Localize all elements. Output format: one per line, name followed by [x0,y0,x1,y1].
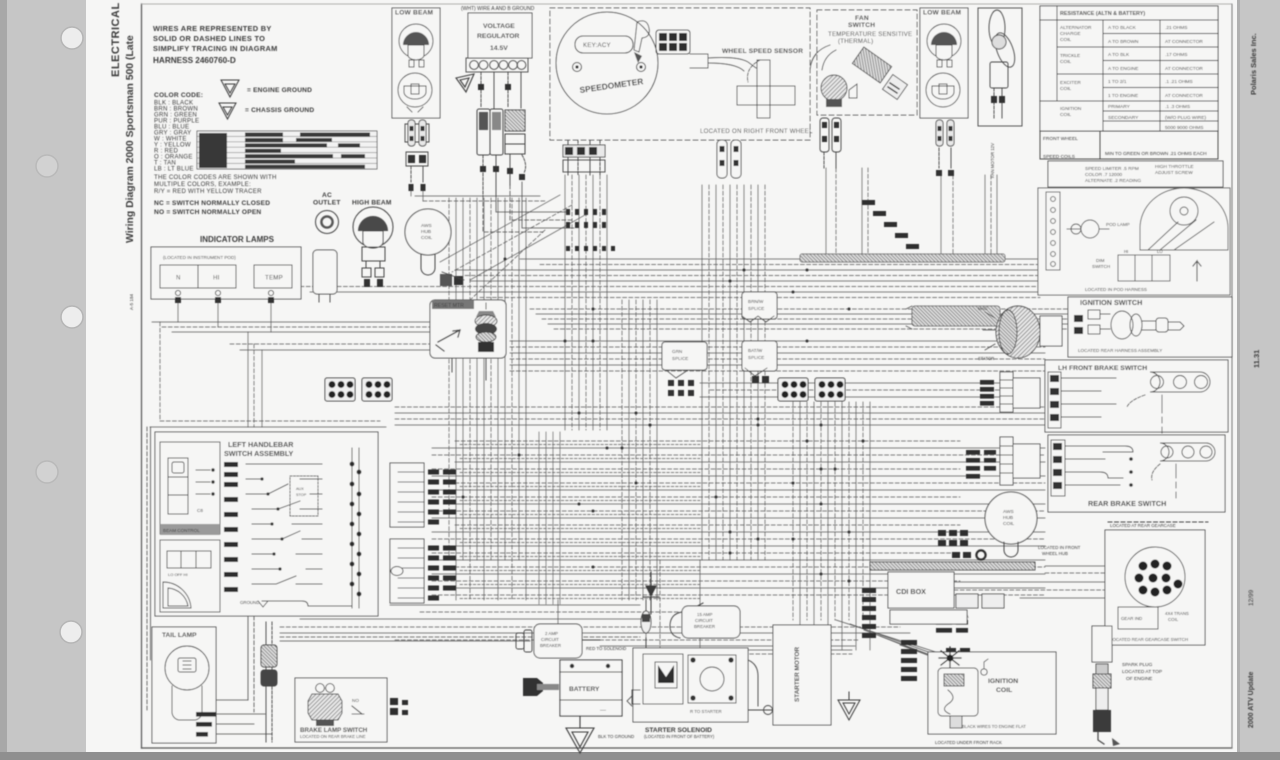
fan switch thermal sensor [748,45,908,107]
dim switch arrow [1193,261,1201,281]
svg-text:LOCATED ON RIGHT FRONT WHEEL: LOCATED ON RIGHT FRONT WHEEL [700,128,813,135]
color code legend [154,92,203,173]
svg-text:CDI BOX: CDI BOX [896,587,926,596]
svg-text:INDICATOR LAMPS: INDICATOR LAMPS [200,235,275,244]
fan switch capacitor body [821,75,847,101]
ignition coil box [928,652,1056,734]
2 amp circuit breaker [516,624,600,658]
connector below right low beam [936,120,954,176]
svg-text:COIL: COIL [1060,59,1072,65]
svg-text:1 TO 2/1: 1 TO 2/1 [1108,79,1127,85]
connector below left low beam [405,120,429,191]
coil internal [938,668,978,716]
svg-text:BEAM CONTROL: BEAM CONTROL [163,528,200,533]
inline connector ticks on speedo bundle [566,209,615,251]
trans switch enclosure [1105,522,1208,645]
table color cells [199,133,370,169]
svg-text:COIL: COIL [1060,37,1072,43]
rear brake switch box [1048,435,1225,512]
svg-text:COLOR .7 12000: COLOR .7 12000 [1085,172,1122,178]
tail lamp bulb [165,646,209,690]
lamp pins [175,290,180,295]
wire tag columns upper [428,470,456,525]
tail lamp wire labels [196,712,216,737]
svg-text:TRICKLE: TRICKLE [1060,53,1080,59]
wires below speedometer [563,140,605,175]
svg-text:C8: C8 [197,508,203,513]
svg-text:COIL: COIL [1060,112,1072,118]
svg-text:OF ENGINE: OF ENGINE [1126,676,1152,682]
horizontal harness wires [520,258,1040,260]
voltage regulator U1 [466,13,532,72]
wires converging to engine splice [836,620,948,656]
svg-text:MAG: MAG [978,306,988,311]
CDI round connector [976,550,985,559]
svg-text:AWS: AWS [421,223,432,229]
svg-text:STARTER MOTOR: STARTER MOTOR [794,646,801,702]
svg-text:AT CONNECTOR: AT CONNECTOR [1165,39,1203,45]
harness bundle above CDI [870,562,1035,619]
solenoid coil square [688,655,736,703]
spark plug body [1096,664,1108,674]
starter solenoid [627,648,758,722]
bus junction dots [350,462,362,597]
rear brake lever [1160,443,1215,461]
starter motor [748,625,831,725]
wire tags at lower accessory connector [966,450,996,479]
splice star [939,647,961,667]
svg-text:A TO ENGINE: A TO ENGINE [1108,66,1138,72]
svg-text:15 AMP: 15 AMP [697,612,712,617]
chassis ground triangle at regulator [456,74,474,92]
rear AWS hub coil [985,492,1081,557]
svg-text:SPLICE: SPLICE [748,306,764,311]
pod connector strip [1046,192,1060,270]
svg-text:LOCATED AT TOP: LOCATED AT TOP [1122,669,1162,675]
svg-text:LOCATED IN FRONT: LOCATED IN FRONT [1038,545,1081,550]
front brake connector pins [1048,372,1061,428]
svg-text:COIL: COIL [421,235,433,241]
svg-text:STATOR: STATOR [978,356,994,361]
svg-text:GEAR IND: GEAR IND [1121,616,1142,621]
svg-text:2000 ATV Update: 2000 ATV Update [1248,671,1255,728]
bottom page edge bar [0,752,1280,760]
splice GRN [662,342,707,396]
svg-text:VOLTAGE: VOLTAGE [483,23,515,30]
rear brake connector pins [1051,440,1065,496]
svg-text:11.31: 11.31 [1252,350,1261,368]
flasher relay tall rounded box [313,250,337,302]
svg-text:A-5 184: A-5 184 [129,293,134,310]
svg-text:A TO BROWN: A TO BROWN [1108,39,1139,45]
headlight LOW BEAM left box [392,8,440,118]
AC outlet [316,211,339,234]
requirements chart table [1040,6,1218,160]
hole punch 1 [61,27,83,49]
diode symbol in lower mesh [643,572,659,614]
cooling fan motor [978,8,1022,126]
pin pair below reset box [452,358,486,380]
speedometer gauge [556,12,658,114]
svg-text:RESISTANCE (ALTN & BATTERY): RESISTANCE (ALTN & BATTERY) [1060,11,1145,17]
svg-text:PRIMARY: PRIMARY [1108,104,1131,110]
connector block right of handlebar upper [390,463,456,527]
svg-text:BLACK WIRES TO ENGINE FLAT: BLACK WIRES TO ENGINE FLAT [962,724,1026,729]
vertical harness wires [177,303,179,322]
6-pin connector block D [815,378,845,401]
6-pin connector block A [325,378,355,401]
low beam lamp bulb 1 [399,24,433,58]
additional harness wires [460,432,852,654]
svg-text:NO = SWITCH NORMALLY OPEN: NO = SWITCH NORMALLY OPEN [154,209,261,216]
svg-text:COIL: COIL [1003,521,1015,527]
regulator pin strip [466,58,528,72]
spark plug label [1122,662,1162,682]
svg-text:.1 .3 OHMS: .1 .3 OHMS [1165,104,1190,110]
diagram border top [142,3,1233,5]
wire tags left mesh edge [700,382,1000,384]
chassis ground at starter [838,692,860,720]
svg-text:.17 OHMS: .17 OHMS [1165,52,1187,58]
magneto stator hatched [978,306,1062,361]
speedometer key symbol [634,21,649,52]
svg-text:LO OFF HI: LO OFF HI [168,572,188,577]
svg-text:BLK TO GROUND: BLK TO GROUND [598,734,634,739]
svg-text:SPARK PLUG: SPARK PLUG [1122,662,1153,668]
svg-text:TEMP: TEMP [265,275,283,282]
svg-text:4X4 TRANS: 4X4 TRANS [1165,611,1189,616]
svg-text:HI: HI [213,275,220,282]
svg-text:LOCATED AT REAR GEARCASE: LOCATED AT REAR GEARCASE [1110,523,1176,528]
svg-text:AUX: AUX [296,487,304,491]
svg-text:LOW BEAM: LOW BEAM [395,10,434,17]
reset arrow [438,330,460,342]
svg-text:DIM: DIM [1096,258,1105,263]
svg-text:ALTERNATOR: ALTERNATOR [1060,25,1092,31]
high beam head lamp [353,207,393,287]
splice BAT/W [742,341,777,383]
speed limiter note box [1048,161,1223,187]
svg-text:ALTERNATE .2 READING: ALTERNATE .2 READING [1085,178,1141,184]
svg-text:FAN: FAN [855,15,869,22]
table row lines [197,136,377,163]
svg-text:LOCATED UNDER FRONT RACK: LOCATED UNDER FRONT RACK [935,740,1002,745]
svg-text:AT CONNECTOR: AT CONNECTOR [1165,93,1203,99]
note: wires represented text [153,24,278,65]
svg-text:NC = SWITCH NORMALLY CLOSED: NC = SWITCH NORMALLY CLOSED [154,200,270,207]
svg-text:CHARGE: CHARGE [1060,31,1081,37]
svg-text:(LOCATED IN INSTRUMENT POD): (LOCATED IN INSTRUMENT POD) [163,255,236,260]
svg-text:GRN: GRN [672,349,682,354]
svg-text:BRAKE LAMP SWITCH: BRAKE LAMP SWITCH [300,727,368,734]
right low beam bulb 1 [927,24,961,58]
svg-text:IGNITION: IGNITION [1060,106,1082,112]
svg-text:NO: NO [352,698,359,703]
svg-text:(W/O PLUG WIRE): (W/O PLUG WIRE) [1165,115,1206,121]
svg-text:POD LAMP: POD LAMP [1106,222,1130,227]
fan switch hatched connector [852,47,891,83]
svg-text:RESET MTR: RESET MTR [434,303,464,309]
svg-text:5000 9000 OHMS: 5000 9000 OHMS [1165,125,1203,131]
svg-text:MULTIPLE COLORS, EXAMPLE:: MULTIPLE COLORS, EXAMPLE: [154,181,251,188]
6-pin connector block C [778,378,808,401]
fan switch dashed enclosure [817,10,917,115]
brake switch connectors [390,698,408,715]
wires handlebar to tail lamp [147,427,272,734]
svg-text:OUTLET: OUTLET [313,200,341,207]
svg-text:BRN/W: BRN/W [748,299,764,304]
connector pin stubs upper [398,472,424,522]
svg-text:SECONDARY: SECONDARY [1108,115,1139,121]
svg-text:COLOR CODE:: COLOR CODE: [154,92,203,99]
rear harness bundle [280,637,640,641]
svg-text:Wiring Diagram 2000 Sportsman: Wiring Diagram 2000 Sportsman 500 (Late [125,35,136,243]
svg-text:ELECTRICAL: ELECTRICAL [110,2,122,77]
svg-text:BREAKER: BREAKER [540,643,561,648]
front brake switch box [1045,360,1228,433]
svg-text:ADJUST SCREW: ADJUST SCREW [1155,170,1193,176]
indicator lamp HI [198,265,236,288]
svg-text:SIMPLIFY TRACING IN DIAGRAM: SIMPLIFY TRACING IN DIAGRAM [153,44,278,53]
wire pair from low-beam connector [410,166,412,182]
hole punch 3 [61,306,83,328]
reset lamp stack [476,311,496,317]
spark plug cap [1092,626,1120,746]
svg-text:AT CONNECTOR: AT CONNECTOR [1165,66,1203,72]
svg-text:STARTER SOLENOID: STARTER SOLENOID [645,727,712,734]
svg-text:SPLICE: SPLICE [672,356,688,361]
svg-text:LOW BEAM: LOW BEAM [923,10,962,17]
tail lamp box [152,627,216,743]
hub coil connector [440,274,452,286]
front brake lever [1150,372,1210,392]
wire tag stack left of CDI [862,588,876,638]
6-pin connector block B [362,378,392,401]
svg-text:THE COLOR CODES ARE SHOWN WITH: THE COLOR CODES ARE SHOWN WITH [154,174,277,181]
fan switch connector pins below [820,118,841,168]
svg-text:R TO STARTER: R TO STARTER [690,709,722,714]
hole punch 4 [36,461,58,483]
svg-text:WIRES ARE REPRESENTED BY: WIRES ARE REPRESENTED BY [153,24,272,33]
svg-text:WHEEL HUB: WHEEL HUB [1042,551,1068,556]
svg-text:2 AMP: 2 AMP [545,631,558,636]
svg-text:COIL: COIL [1168,617,1179,622]
starter solenoid label [644,727,715,739]
regulator connector blocks [477,109,525,155]
svg-text:R/Y = RED WITH YELLOW TRACER: R/Y = RED WITH YELLOW TRACER [154,188,262,195]
svg-text:BREAKER: BREAKER [694,624,715,629]
CDI connector row [938,530,968,546]
15 amp circuit breaker [670,606,740,638]
svg-text:CIRCUIT: CIRCUIT [541,637,559,642]
svg-text:AC: AC [322,192,332,199]
svg-text:Polaris Sales Inc.: Polaris Sales Inc. [1249,33,1258,95]
svg-text:IGNITION SWITCH: IGNITION SWITCH [1080,298,1142,307]
svg-text:HUB: HUB [1003,515,1013,521]
step wires regulator to speedo bundle [483,182,574,232]
battery [523,646,626,716]
wire tag stack right of fan [862,200,875,205]
battery lug [523,678,543,696]
svg-text:CIRCUIT: CIRCUIT [695,618,713,623]
svg-text:COIL: COIL [996,687,1012,694]
svg-text:LO: LO [1157,249,1163,254]
reset meter box [430,300,506,358]
svg-text:TEMPERATURE SENSITIVE: TEMPERATURE SENSITIVE [828,31,912,38]
trans connector drum [1125,547,1185,607]
low beam lamp bulb 2 [398,73,432,107]
svg-text:SWITCH: SWITCH [1092,264,1110,269]
svg-text:IGNITION: IGNITION [988,678,1018,685]
CDI connector blob row [952,552,971,558]
diagram border bottom [142,747,1233,749]
svg-text:HI: HI [1124,249,1128,254]
svg-text:LEFT HANDLEBAR: LEFT HANDLEBAR [228,440,294,449]
fan switch labels [828,15,912,45]
svg-text:SPLICE: SPLICE [748,355,764,360]
hole punch 5 [60,621,82,643]
svg-text:N: N [176,275,181,282]
ignition switch connectors [1074,315,1083,322]
relay switch arm in lower mesh [684,603,708,614]
svg-text:HIGH BEAM: HIGH BEAM [352,200,392,207]
speedometer connector 4-pin [656,30,690,54]
svg-text:LB : LT BLUE: LB : LT BLUE [154,166,194,173]
svg-text:KEY:ACY: KEY:ACY [583,42,611,49]
indicator lamp TEMP [254,265,292,288]
svg-text:.21 OHMS: .21 OHMS [1165,25,1187,31]
accessory connector upper [980,372,1040,412]
indicator lamps box [151,247,301,303]
svg-text:AWS: AWS [1003,509,1014,515]
svg-text:GROUND: GROUND [240,600,260,605]
svg-text:12/99: 12/99 [1248,589,1255,606]
throttle quarter circle [163,582,191,608]
svg-text:SPEED LIMITER .5 RPM: SPEED LIMITER .5 RPM [1085,166,1139,172]
light switch housing [160,540,220,612]
svg-text:LOCATED REAR HARNESS ASSEMBLY: LOCATED REAR HARNESS ASSEMBLY [1078,348,1162,353]
svg-text:(LOCATED IN FRONT OF BATTERY): (LOCATED IN FRONT OF BATTERY) [644,734,715,739]
wire tag columns lower [428,546,456,601]
brake lamp switch box [295,678,387,742]
svg-text:LH FRONT BRAKE SWITCH: LH FRONT BRAKE SWITCH [1058,365,1147,372]
switch contact diagram [246,464,294,494]
right low beam bulb 2 [926,73,960,107]
diagonal wires near speedometer [440,195,560,262]
svg-text:SWITCH ASSEMBLY: SWITCH ASSEMBLY [224,449,294,458]
color cross-reference table [197,131,377,169]
notes below color table [154,174,277,216]
ignition feed loom [906,306,1000,329]
connector block right of handlebar lower [390,539,456,603]
pressure switch [316,684,325,693]
chassis ground symbol legend [219,103,236,119]
CDI base plate [890,610,967,624]
harness connector tubes below speedo box [717,140,741,178]
svg-text:1 TO ENGINE: 1 TO ENGINE [1108,93,1138,99]
engine ground symbol legend [221,80,239,97]
CDI box [888,572,954,608]
upper harness loom [800,254,1005,262]
svg-text:REAR BRAKE SWITCH: REAR BRAKE SWITCH [1088,499,1166,508]
svg-text:REGULATOR: REGULATOR [477,33,520,40]
headlight LOW BEAM right box [920,8,968,118]
svg-text:A TO BLACK: A TO BLACK [1108,25,1137,31]
svg-text:HIGH THROTTLE: HIGH THROTTLE [1155,164,1194,170]
junction dots [578,412,581,415]
svg-text:.1 .21 OHMS: .1 .21 OHMS [1165,79,1193,85]
wire tags near ignition coil [901,640,917,645]
svg-text:STOP: STOP [296,493,307,497]
right page edge line [1237,0,1240,752]
engine ground triangle below battery [566,716,634,753]
wires from regulator down [478,72,521,108]
handlebar wire label column [224,462,238,592]
trans coil labels [1118,607,1158,629]
accessory connector lower [966,437,1040,485]
wires below regulator connectors [480,155,526,196]
svg-text:SWITCH: SWITCH [848,22,875,29]
svg-text:A TO BLK: A TO BLK [1108,52,1130,58]
svg-text:FRONT WHEEL: FRONT WHEEL [1043,136,1078,142]
svg-text:LOCATED IN POD HARNESS: LOCATED IN POD HARNESS [1085,287,1147,292]
svg-text:FAN MOTOR 12V: FAN MOTOR 12V [990,143,995,178]
splice BRN/W [742,292,777,322]
wheel speed sensor [690,54,795,118]
svg-text:EXCITER: EXCITER [1060,80,1081,86]
diagram border left [141,4,143,748]
svg-text:LOCATED REAR GEARCASE SWITCH: LOCATED REAR GEARCASE SWITCH [1110,637,1188,642]
wire tags at upper accessory connector [980,380,994,406]
svg-text:(WHT) WIRE A AND B GROUND: (WHT) WIRE A AND B GROUND [461,6,535,12]
svg-text:COIL: COIL [1060,86,1072,92]
table cell text [1043,11,1206,160]
inline fuse at solenoid [641,600,651,652]
svg-text:14.5V: 14.5V [490,45,508,52]
indicator lamp N [160,265,198,288]
front AWS hub coil [405,209,464,286]
svg-text:TAIL LAMP: TAIL LAMP [162,632,197,639]
speedometer dashed enclosure [550,8,810,140]
svg-text:LOCATED ON REAR BRAKE LINE: LOCATED ON REAR BRAKE LINE [300,734,366,739]
svg-text:= ENGINE GROUND: = ENGINE GROUND [247,87,312,94]
svg-text:RED TO SOLENOID: RED TO SOLENOID [586,646,626,651]
svg-text:= CHASSIS GROUND: = CHASSIS GROUND [245,107,314,114]
svg-text:SOLID OR DASHED LINES TO: SOLID OR DASHED LINES TO [153,34,265,43]
left paper edge shadow [0,0,7,760]
hole punch 2 [36,155,58,177]
ignition switch box [1068,297,1232,357]
wire tags lower right [936,620,970,655]
diagram border right [1231,4,1233,748]
svg-text:MIN TO GREEN OR BROWN .21 OHMS: MIN TO GREEN OR BROWN .21 OHMS EACH [1105,151,1207,157]
svg-text:HUB: HUB [421,229,431,235]
pod lamp [1081,220,1099,238]
override switch housing [160,442,220,534]
svg-text:BAT/W: BAT/W [748,348,763,353]
svg-text:BATTERY: BATTERY [569,686,600,693]
inline fuse harness vertical [261,622,277,742]
ignition switch body [1111,311,1133,339]
svg-text:HARNESS 2460760-D: HARNESS 2460760-D [153,56,236,65]
svg-text:—: — [600,708,606,714]
headlight pod enclosure [1038,188,1230,295]
headlamp housing [1140,188,1228,250]
connector pin stubs lower [398,548,424,598]
handlebar bus bars [351,448,353,608]
svg-text:WHEEL SPEED SENSOR: WHEEL SPEED SENSOR [722,48,803,55]
svg-text:(THERMAL): (THERMAL) [838,38,873,45]
